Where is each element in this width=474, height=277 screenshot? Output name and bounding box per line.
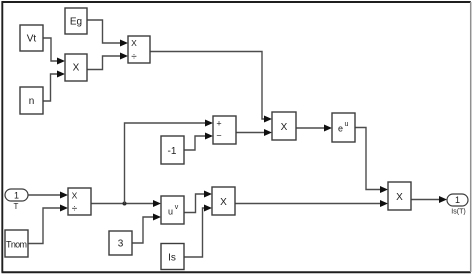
svg-text:÷: ÷ bbox=[72, 204, 78, 215]
wire divide U2 to power block u^v top input bbox=[91, 200, 161, 207]
constant block -1 bbox=[161, 136, 184, 164]
sum block S1 bbox=[213, 116, 236, 144]
svg-text:v: v bbox=[175, 204, 179, 211]
svg-text:−: − bbox=[216, 130, 221, 140]
svg-text:X: X bbox=[220, 197, 227, 208]
frame top border bbox=[2, 1, 471, 3]
wire constant Is to product P2 bottom input bbox=[184, 205, 212, 258]
wire power block u^v to product P2 top input bbox=[184, 191, 212, 213]
product block P3 bbox=[272, 112, 296, 140]
svg-text:+: + bbox=[216, 119, 221, 129]
svg-text:÷: ÷ bbox=[131, 52, 137, 63]
constant block Vt bbox=[20, 25, 43, 51]
svg-text:u: u bbox=[345, 121, 349, 128]
wire constant 3 to power block u^v bottom input bbox=[132, 214, 161, 244]
constant block Tnom bbox=[5, 230, 28, 257]
svg-text:3: 3 bbox=[118, 239, 124, 250]
inport 1 (T) bbox=[5, 189, 28, 211]
svg-text:X: X bbox=[131, 38, 137, 48]
svg-text:n: n bbox=[29, 96, 35, 107]
product block P4 bbox=[388, 182, 411, 210]
svg-text:X: X bbox=[73, 63, 80, 74]
wire product P2 to product P4 bottom input bbox=[235, 200, 388, 207]
divide block U1 bbox=[128, 36, 150, 63]
svg-text:X: X bbox=[72, 191, 78, 201]
wire divide U1 to product P3 top input bbox=[150, 52, 272, 123]
wire product P3 to exp block input bbox=[296, 125, 332, 132]
wire exp block to product P4 top input bbox=[355, 128, 388, 194]
frame bottom border bbox=[2, 271, 471, 273]
wire sum S1 to product P3 bottom input bbox=[236, 129, 272, 136]
frame left border bbox=[1, 1, 3, 272]
wire product P4 to outport Is(T) bbox=[411, 196, 447, 203]
wire Eg to divide U1 top input bbox=[87, 20, 128, 47]
frame right border bbox=[470, 2, 472, 272]
svg-text:Is(T): Is(T) bbox=[451, 209, 465, 216]
exp block e^u bbox=[332, 113, 355, 142]
constant block n bbox=[20, 87, 43, 114]
constant block Eg bbox=[65, 8, 87, 34]
junction node on divide U2 output bbox=[123, 202, 127, 206]
svg-text:X: X bbox=[396, 192, 403, 203]
power block u^v bbox=[161, 196, 184, 224]
wire Tnom to divide U2 bottom input bbox=[29, 205, 69, 244]
wire n to product P1 bottom input bbox=[43, 71, 65, 102]
constant block 3 bbox=[109, 231, 132, 255]
svg-text:Eg: Eg bbox=[70, 17, 82, 28]
wire constant -1 to sum S1 minus input bbox=[184, 133, 213, 151]
product block P1 bbox=[65, 54, 87, 81]
wire Vt to product P1 top input bbox=[43, 38, 65, 65]
constant block Is bbox=[161, 244, 184, 270]
svg-text:e: e bbox=[338, 124, 343, 134]
svg-text:1: 1 bbox=[455, 195, 460, 205]
outport 1 (Is(T)) bbox=[447, 194, 468, 216]
svg-text:Tnom: Tnom bbox=[6, 240, 27, 250]
product block P2 bbox=[212, 187, 235, 215]
wire branch junction to sum S1 plus input bbox=[125, 120, 214, 204]
svg-text:X: X bbox=[281, 122, 288, 133]
svg-text:Vt: Vt bbox=[27, 34, 37, 45]
svg-text:u: u bbox=[168, 207, 173, 217]
divide block U2 bbox=[68, 188, 91, 215]
wire product P1 to divide U1 bottom input bbox=[87, 53, 128, 70]
svg-text:-1: -1 bbox=[168, 146, 177, 157]
svg-text:T: T bbox=[14, 202, 19, 211]
wire inport T to divide U2 top input bbox=[28, 192, 68, 199]
svg-text:Is: Is bbox=[168, 253, 176, 264]
svg-text:1: 1 bbox=[14, 191, 19, 201]
